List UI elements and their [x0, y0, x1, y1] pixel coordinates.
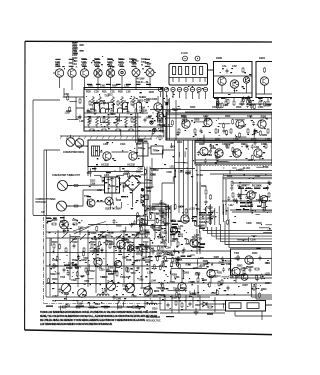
svg-text:B1E: B1E	[138, 147, 143, 150]
svg-text:C313: C313	[177, 141, 183, 144]
ground hatch bus under box	[60, 136, 164, 139]
svg-text:L30: L30	[126, 90, 131, 94]
label CONVERTER ALIGNED	[146, 206, 160, 212]
transistor T200	[53, 69, 64, 80]
svg-text:R318: R318	[256, 222, 262, 225]
svg-text:AC132: AC132	[127, 163, 135, 167]
transistor Q303	[123, 100, 128, 112]
svg-text:C312: C312	[236, 169, 242, 172]
svg-text:T338: T338	[164, 224, 170, 227]
tuner labels scatter	[52, 241, 149, 281]
svg-text:R312: R312	[106, 235, 112, 238]
svg-text:L305: L305	[79, 120, 85, 123]
svg-text:T352: T352	[90, 270, 96, 273]
IF strip box 2	[195, 141, 272, 164]
horizontal rail y215	[46, 215, 140, 217]
label COMPACT TUNING	[36, 198, 56, 204]
svg-text:D311: D311	[190, 240, 196, 243]
K200 box	[214, 62, 253, 98]
electrolytic cap C310	[165, 102, 168, 105]
mid-left bundle zone filler	[137, 203, 171, 259]
transistor T202	[80, 67, 88, 81]
resistor	[159, 225, 161, 231]
zigzag resistor bank 2	[88, 116, 137, 128]
svg-text:R500: R500	[52, 241, 58, 244]
right column zone filler	[233, 210, 277, 248]
transistor T213	[260, 77, 268, 85]
tuner top speckle filler	[47, 218, 83, 233]
svg-text:R323: R323	[170, 220, 176, 223]
svg-text:C320: C320	[258, 106, 264, 109]
svg-text:R336: R336	[251, 138, 257, 141]
lower right cluster filler	[151, 256, 271, 299]
svg-text:R330: R330	[181, 115, 187, 118]
svg-text:R305: R305	[94, 251, 100, 254]
svg-text:T319: T319	[104, 95, 110, 98]
svg-text:C308: C308	[228, 276, 234, 279]
svg-text:R349: R349	[145, 261, 151, 264]
strip1 speckle filler	[168, 116, 267, 138]
svg-text:R320: R320	[153, 229, 159, 232]
tuner top rail	[46, 237, 150, 239]
wire into box	[64, 88, 84, 120]
mixer transistor T332	[60, 220, 69, 229]
low mid band parts filler	[146, 256, 203, 272]
tuner rail 232	[46, 231, 150, 233]
svg-text:AC187K: AC187K	[237, 184, 247, 188]
svg-text:TODOS LOS TENSIONES ESTAN MEDI: TODOS LOS TENSIONES ESTAN MEDIDAS CON EL…	[40, 311, 157, 314]
internal rail mid	[84, 112, 148, 114]
svg-text:C329: C329	[71, 279, 77, 282]
svg-text:D301: D301	[122, 257, 128, 260]
transistor T363	[232, 267, 240, 275]
resistor R305	[117, 100, 119, 106]
svg-text:L328: L328	[72, 238, 78, 241]
coil L600	[147, 303, 157, 305]
svg-text:R323: R323	[123, 173, 129, 176]
jack socket B	[195, 56, 200, 61]
svg-text:R315: R315	[149, 91, 155, 94]
lower mid transistors	[150, 263, 255, 297]
vertical bus lines	[50, 230, 150, 297]
parts left of box	[64, 88, 84, 120]
small box	[145, 195, 148, 200]
svg-text:R331: R331	[217, 271, 223, 274]
svg-text:R520: R520	[52, 278, 58, 281]
svg-text:C345: C345	[78, 227, 84, 230]
lower right speckle filler	[158, 260, 269, 297]
staircase feeders	[206, 204, 228, 228]
internal rail bottom	[84, 126, 163, 128]
bottom speckle filler	[64, 298, 215, 311]
svg-text:C332: C332	[116, 236, 122, 239]
strip2 interior filler	[197, 141, 260, 164]
svg-text:R306: R306	[127, 306, 133, 309]
svg-text:D302: D302	[184, 220, 190, 223]
svg-text:R318: R318	[116, 199, 122, 202]
resistor row1	[53, 243, 147, 253]
transistor Q304	[137, 100, 142, 112]
svg-text:C330: C330	[197, 138, 203, 141]
svg-text:C313: C313	[120, 143, 126, 146]
long switch diagonal	[73, 222, 106, 232]
indicator lamp	[141, 189, 144, 192]
svg-text:L303: L303	[103, 143, 109, 146]
svg-text:R334: R334	[122, 238, 128, 241]
resistor R303	[103, 117, 105, 123]
svg-text:R307: R307	[195, 304, 201, 307]
resistor in K200	[242, 67, 244, 73]
capacitor C308	[144, 118, 147, 123]
svg-text:POT R342: POT R342	[36, 201, 47, 204]
svg-text:L330: L330	[265, 138, 271, 141]
band K200 underparts filler	[216, 99, 271, 110]
svg-text:T345: T345	[176, 228, 182, 231]
svg-text:R317: R317	[153, 295, 159, 298]
right edge verticals	[252, 283, 273, 299]
svg-text:R325: R325	[143, 245, 149, 248]
svg-text:D305: D305	[239, 103, 245, 106]
svg-text:SERIE, Y EL COLECTOR ALIMENTAD: SERIE, Y EL COLECTOR ALIMENTADO CON 9,0 …	[40, 315, 158, 318]
tuner switch diagonals	[62, 232, 140, 243]
bottom middle drop wires	[160, 295, 225, 313]
transistor T310	[182, 120, 190, 128]
svg-text:C502: C502	[72, 241, 78, 244]
tuner speckle filler	[50, 254, 152, 301]
capacitor C600	[167, 303, 170, 308]
svg-text:T325: T325	[68, 262, 74, 265]
svg-text:C346: C346	[116, 298, 122, 301]
tuner rail 224	[88, 224, 136, 226]
svg-text:L312: L312	[170, 166, 176, 169]
AF top rails	[223, 176, 272, 215]
svg-text:C302: C302	[162, 124, 168, 127]
tuner bottom rail	[46, 296, 150, 298]
label AC187K row	[237, 184, 268, 189]
tuner carpet 2 filler	[89, 231, 146, 255]
transistor T401	[260, 195, 267, 202]
svg-text:R313: R313	[186, 263, 192, 266]
svg-text:T331: T331	[196, 208, 202, 211]
ground sym	[194, 308, 199, 315]
svg-text:R314: R314	[94, 102, 100, 105]
svg-text:D327: D327	[235, 257, 241, 260]
output box bottom right	[231, 249, 273, 275]
IF strip box 1	[166, 113, 272, 140]
right-edge feed wires	[136, 70, 272, 305]
IF box interior filler	[87, 91, 163, 136]
svg-text:R344: R344	[143, 257, 149, 260]
svg-text:T363: T363	[84, 280, 90, 283]
left wires to border	[33, 216, 46, 298]
svg-text:T330: T330	[156, 287, 162, 290]
svg-text:ANT: ANT	[132, 63, 137, 66]
svg-text:C306: C306	[166, 171, 172, 174]
resistor row	[61, 306, 137, 308]
internal rail top	[84, 89, 163, 91]
variable capacitor VC4	[144, 287, 153, 296]
svg-text:D305: D305	[102, 276, 108, 279]
bottom label dashes	[46, 306, 144, 308]
bottom row small parts in box	[89, 129, 134, 131]
svg-text:R326: R326	[150, 207, 156, 210]
svg-text:D311: D311	[162, 232, 168, 235]
svg-text:DE UTILES. NIVEL DE SENERO Y C: DE UTILES. NIVEL DE SENERO Y CON SENALAM…	[40, 319, 146, 322]
pot R342	[57, 201, 72, 211]
label T204	[107, 58, 113, 67]
pin slot 3	[186, 67, 189, 75]
svg-text:D322: D322	[109, 231, 115, 234]
transistor T320	[200, 147, 208, 155]
svg-text:R313: R313	[145, 233, 151, 236]
label FOS TRI	[181, 256, 192, 257]
svg-text:D321: D321	[200, 243, 206, 246]
parts	[197, 277, 199, 283]
svg-text:C330: C330	[156, 254, 162, 257]
svg-text:L315: L315	[179, 171, 185, 174]
transistor T304	[105, 197, 113, 205]
svg-text:K201: K201	[259, 56, 266, 60]
top label speckle filler	[56, 56, 148, 70]
svg-text:R317: R317	[192, 236, 198, 239]
svg-text:R305: R305	[180, 287, 186, 290]
svg-text:L314: L314	[178, 225, 184, 228]
svg-text:L323: L323	[265, 273, 271, 276]
label C364 R370	[170, 231, 180, 235]
antenna label left	[41, 211, 45, 214]
transistor T312	[236, 120, 244, 128]
transistor T313	[258, 120, 266, 128]
dash-dot boundary	[44, 303, 162, 305]
transistor T362	[207, 269, 215, 277]
svg-text:C316: C316	[90, 250, 96, 253]
labels above circles	[84, 195, 90, 198]
under-K parts filler	[218, 96, 272, 110]
border frame top line	[25, 40, 272, 43]
svg-text:C308: C308	[151, 169, 157, 172]
wires in K200	[214, 76, 253, 93]
svg-text:D336: D336	[145, 288, 151, 291]
svg-text:AC132: AC132	[101, 163, 109, 167]
transistor T342	[117, 240, 125, 248]
transistor T365	[178, 282, 186, 290]
input filter parts filler	[152, 99, 178, 122]
svg-text:R318: R318	[236, 106, 242, 109]
transistor T204	[106, 67, 114, 81]
transistor T364	[241, 274, 248, 281]
mid vertical feeds	[140, 158, 161, 238]
svg-text:B1E-B — BL: B1E-B — BL	[136, 81, 149, 84]
label T203	[94, 58, 100, 67]
svg-text:L344: L344	[151, 279, 157, 282]
svg-text:C357: C357	[53, 295, 59, 298]
capacitor C306	[117, 118, 120, 123]
diode D600	[200, 302, 210, 306]
parts in K201	[264, 67, 266, 73]
converter wires	[76, 146, 143, 172]
svg-text:C301: C301	[151, 174, 157, 177]
svg-text:F1 201: F1 201	[181, 52, 188, 55]
transistor T400	[247, 191, 255, 199]
transistor T302	[103, 152, 111, 160]
svg-text:AC188K: AC188K	[252, 184, 262, 188]
svg-text:LAS TENSIONES MAX ESO MEDIDO C: LAS TENSIONES MAX ESO MEDIDO CON UN VOLT…	[40, 323, 112, 326]
label dash rows above tubes	[55, 59, 150, 67]
mid vertical wires	[166, 205, 171, 246]
terminal box bottom right	[226, 301, 273, 312]
svg-text:R308: R308	[195, 273, 201, 276]
svg-text:R326: R326	[225, 115, 231, 118]
svg-text:D371: D371	[75, 266, 81, 269]
capacitor C300	[79, 115, 82, 120]
labels above strip1	[190, 106, 264, 109]
lower mid rails	[150, 259, 272, 284]
pin slot 4	[193, 67, 196, 75]
dashed bottom of strip2	[195, 165, 272, 167]
svg-text:R303: R303	[237, 264, 243, 267]
jack socket A	[183, 56, 188, 61]
svg-text:L309: L309	[131, 295, 137, 298]
tuning gang circle A	[66, 135, 75, 146]
svg-text:D301: D301	[136, 171, 142, 174]
svg-text:R319: R319	[77, 303, 83, 306]
svg-text:S1E3 C300: S1E3 C300	[146, 98, 158, 101]
osc upper speckle filler	[201, 206, 228, 224]
svg-text:R406: R406	[201, 185, 207, 188]
labels above strip2	[197, 138, 271, 141]
converter lower zone filler	[87, 168, 157, 211]
tuner interior filler	[47, 219, 161, 300]
transistor T209	[157, 112, 164, 119]
converter speckle filler	[87, 142, 145, 165]
wires from boxes	[148, 148, 175, 150]
transistor T212	[243, 77, 249, 83]
label row under jacks	[136, 78, 149, 85]
middle cluster filler	[140, 201, 203, 259]
connecting wire from connector to K200	[208, 69, 214, 71]
border frame left line	[24, 41, 26, 330]
wires	[145, 297, 225, 310]
resistor right of pot	[73, 185, 79, 187]
svg-text:D325: D325	[214, 256, 220, 259]
svg-text:R300: R300	[262, 134, 268, 137]
AF misc parts	[232, 183, 272, 212]
svg-text:L317: L317	[97, 189, 103, 192]
svg-text:T303: T303	[108, 267, 114, 270]
svg-text:R320: R320	[140, 233, 146, 236]
bridge area speckle filler	[100, 176, 141, 208]
label T202	[81, 58, 87, 67]
svg-text:K200: K200	[216, 56, 223, 60]
svg-text:CONVERTER TUNING POT: CONVERTER TUNING POT	[52, 174, 80, 177]
variable capacitor VC5	[107, 282, 116, 291]
hanging resistors below boxes	[217, 98, 269, 107]
svg-text:L317: L317	[229, 204, 235, 207]
svg-text:R316: R316	[190, 106, 196, 109]
staircase nested wires	[197, 219, 272, 254]
svg-text:D308: D308	[110, 113, 116, 116]
svg-text:T305: T305	[256, 199, 262, 202]
lamp symbol 2	[153, 128, 156, 131]
svg-text:R420: R420	[252, 252, 258, 255]
tuner carpet filler	[88, 230, 140, 255]
svg-text:D307: D307	[100, 231, 106, 234]
svg-text:T332: T332	[192, 293, 198, 296]
diode bridge D300	[125, 175, 141, 191]
svg-text:T303: T303	[138, 278, 144, 281]
svg-text:C300: C300	[121, 231, 127, 234]
bottom rail	[58, 306, 145, 308]
svg-text:L319: L319	[124, 276, 130, 279]
svg-text:C308: C308	[246, 222, 252, 225]
svg-text:C349: C349	[242, 267, 248, 270]
svg-text:R309: R309	[172, 274, 178, 277]
svg-text:L312: L312	[211, 292, 217, 295]
svg-text:D317: D317	[212, 275, 218, 278]
svg-text:C303: C303	[245, 197, 251, 200]
connector lower speckle filler	[160, 86, 203, 95]
svg-text:C322: C322	[170, 281, 176, 284]
top dash row above box	[87, 84, 151, 85]
svg-text:CAP: CAP	[232, 65, 237, 68]
label bridge	[124, 171, 142, 174]
svg-text:C306: C306	[189, 281, 195, 284]
svg-text:CAL: CAL	[222, 65, 227, 68]
pin slot 1	[173, 67, 176, 75]
svg-text:CONVERTER DRIVE: CONVERTER DRIVE	[63, 151, 85, 154]
bottom middle parts	[162, 299, 213, 317]
svg-text:PER VOLT DC: PER VOLT DC	[146, 320, 161, 323]
svg-text:C307: C307	[160, 242, 166, 245]
svg-text:C336: C336	[261, 143, 267, 146]
svg-text:C305: C305	[173, 109, 179, 112]
svg-text:C320: C320	[162, 251, 168, 254]
variable capacitor VC2	[78, 289, 87, 298]
svg-text:R334: R334	[123, 288, 129, 291]
transistor T208	[154, 103, 162, 111]
converter box	[88, 140, 143, 167]
svg-text:R350: R350	[52, 219, 58, 222]
svg-text:R321: R321	[141, 219, 147, 222]
bottom band parts filler	[60, 297, 223, 311]
svg-text:C334: C334	[233, 138, 239, 141]
svg-text:R317: R317	[64, 293, 70, 296]
svg-text:T402: T402	[234, 252, 240, 255]
svg-text:T370: T370	[130, 272, 136, 275]
pin contacts row	[173, 78, 205, 83]
antenna jack EXT	[144, 67, 156, 80]
svg-text:L323: L323	[248, 159, 254, 162]
small box mid-left	[137, 216, 148, 225]
converter labels	[103, 143, 142, 146]
svg-text:C305: C305	[138, 168, 144, 171]
internal rail mid2	[84, 116, 140, 118]
bottom-middle parts	[145, 297, 225, 323]
transistor T402	[245, 256, 253, 264]
svg-text:R32: R32	[118, 90, 123, 94]
svg-text:L335: L335	[80, 275, 86, 278]
resistor R301	[89, 100, 91, 106]
mid column wires under S1E3	[136, 113, 154, 143]
resistor R308	[131, 117, 133, 123]
mid cluster parts between tuner and right	[140, 225, 186, 253]
AF dark label rows below	[236, 202, 261, 210]
transistor T210	[218, 77, 226, 85]
svg-text:L322: L322	[229, 142, 235, 145]
svg-text:C333: C333	[249, 262, 255, 265]
K200 speckle filler	[220, 68, 252, 95]
transistor Q301	[95, 100, 100, 112]
